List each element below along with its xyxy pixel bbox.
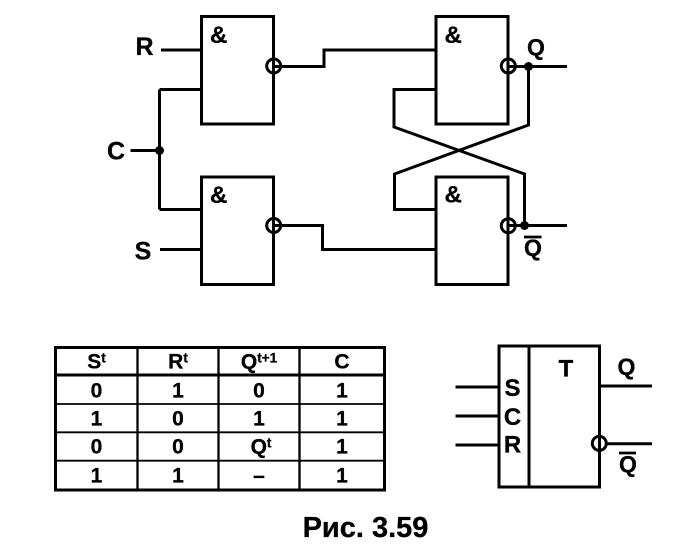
wire U1 Q output bbox=[600, 385, 652, 388]
svg-text:0: 0 bbox=[91, 436, 103, 459]
NAND gate G1 (top-left, inputs R and C) bbox=[202, 17, 274, 125]
truth table row 1 bbox=[91, 379, 349, 402]
wire U1 C input bbox=[456, 415, 500, 418]
svg-text:&: & bbox=[445, 22, 462, 49]
svg-text:Q: Q bbox=[619, 451, 637, 477]
wire Q output bbox=[508, 65, 567, 68]
svg-text:1: 1 bbox=[336, 465, 348, 488]
svg-text:1: 1 bbox=[336, 407, 348, 430]
svg-text:0: 0 bbox=[91, 379, 103, 402]
svg-text:Q: Q bbox=[527, 34, 545, 60]
wire Q-bar feedback to G3 pin 2 bbox=[394, 90, 525, 226]
wire C vertical bus bbox=[158, 90, 161, 210]
truth table frame bbox=[56, 348, 385, 491]
svg-text:C: C bbox=[504, 404, 521, 431]
junction Q-bar node bbox=[520, 221, 529, 230]
svg-text:0: 0 bbox=[253, 379, 265, 402]
svg-text:&: & bbox=[210, 182, 227, 209]
wire G1 output to G3 pin 1 bbox=[274, 50, 437, 67]
flip-flop symbol U1 body bbox=[499, 346, 600, 487]
svg-text:0: 0 bbox=[172, 407, 184, 430]
svg-text:&: & bbox=[210, 22, 227, 49]
wire Q feedback to G4 pin 1 bbox=[395, 67, 529, 210]
svg-text:1: 1 bbox=[336, 379, 348, 402]
svg-text:Q: Q bbox=[618, 354, 636, 380]
node Q-bar label bbox=[524, 235, 542, 261]
G4 output inversion bubble bbox=[501, 219, 515, 233]
wire C input stub bbox=[131, 149, 160, 152]
svg-text:Рис. 3.59: Рис. 3.59 bbox=[303, 512, 429, 544]
svg-text:S: S bbox=[135, 238, 152, 266]
wire U1 Q-bar output bbox=[606, 442, 652, 445]
svg-text:0: 0 bbox=[172, 436, 184, 459]
G3 output inversion bubble bbox=[501, 59, 515, 73]
wire G2 output to G4 pin 2 bbox=[274, 226, 437, 250]
svg-text:1: 1 bbox=[172, 379, 184, 402]
svg-text:1: 1 bbox=[336, 436, 348, 459]
truth table row 3 bbox=[91, 436, 349, 459]
G2 output inversion bubble bbox=[267, 219, 281, 233]
NAND gate G2 (bottom-left, inputs C and S) bbox=[202, 177, 274, 285]
junction Q node bbox=[524, 62, 533, 71]
NAND gate G3 (top-right, output Q) bbox=[436, 17, 508, 125]
wire U1 S input bbox=[456, 386, 500, 389]
svg-text:1: 1 bbox=[91, 465, 103, 488]
wire C to G2 pin 1 bbox=[160, 208, 204, 211]
svg-text:T: T bbox=[559, 356, 574, 383]
truth table row 4 bbox=[91, 465, 349, 488]
svg-text:–: – bbox=[253, 465, 265, 488]
svg-text:R: R bbox=[504, 432, 521, 459]
svg-text:1: 1 bbox=[253, 407, 265, 430]
svg-text:&: & bbox=[445, 182, 462, 209]
junction C node bbox=[155, 146, 164, 155]
svg-text:C: C bbox=[107, 138, 125, 166]
wire R input to G1 pin 1 bbox=[161, 49, 203, 52]
svg-text:R: R bbox=[135, 33, 153, 61]
NAND gate G4 (bottom-right, output Q-bar) bbox=[436, 177, 508, 285]
svg-text:1: 1 bbox=[172, 465, 184, 488]
svg-text:1: 1 bbox=[91, 407, 103, 430]
svg-text:S: S bbox=[504, 375, 520, 402]
wire C to G1 pin 2 bbox=[160, 88, 204, 91]
G1 output inversion bubble bbox=[267, 59, 281, 73]
wire U1 R input bbox=[456, 444, 500, 447]
wire S input to G2 pin 2 bbox=[160, 248, 203, 251]
wire Q-bar output bbox=[508, 224, 567, 227]
truth table row 2 bbox=[91, 407, 349, 430]
U1 Q-bar inversion bubble bbox=[592, 436, 606, 450]
node U1 Q-bar label bbox=[619, 451, 637, 477]
svg-text:C: C bbox=[334, 351, 349, 374]
